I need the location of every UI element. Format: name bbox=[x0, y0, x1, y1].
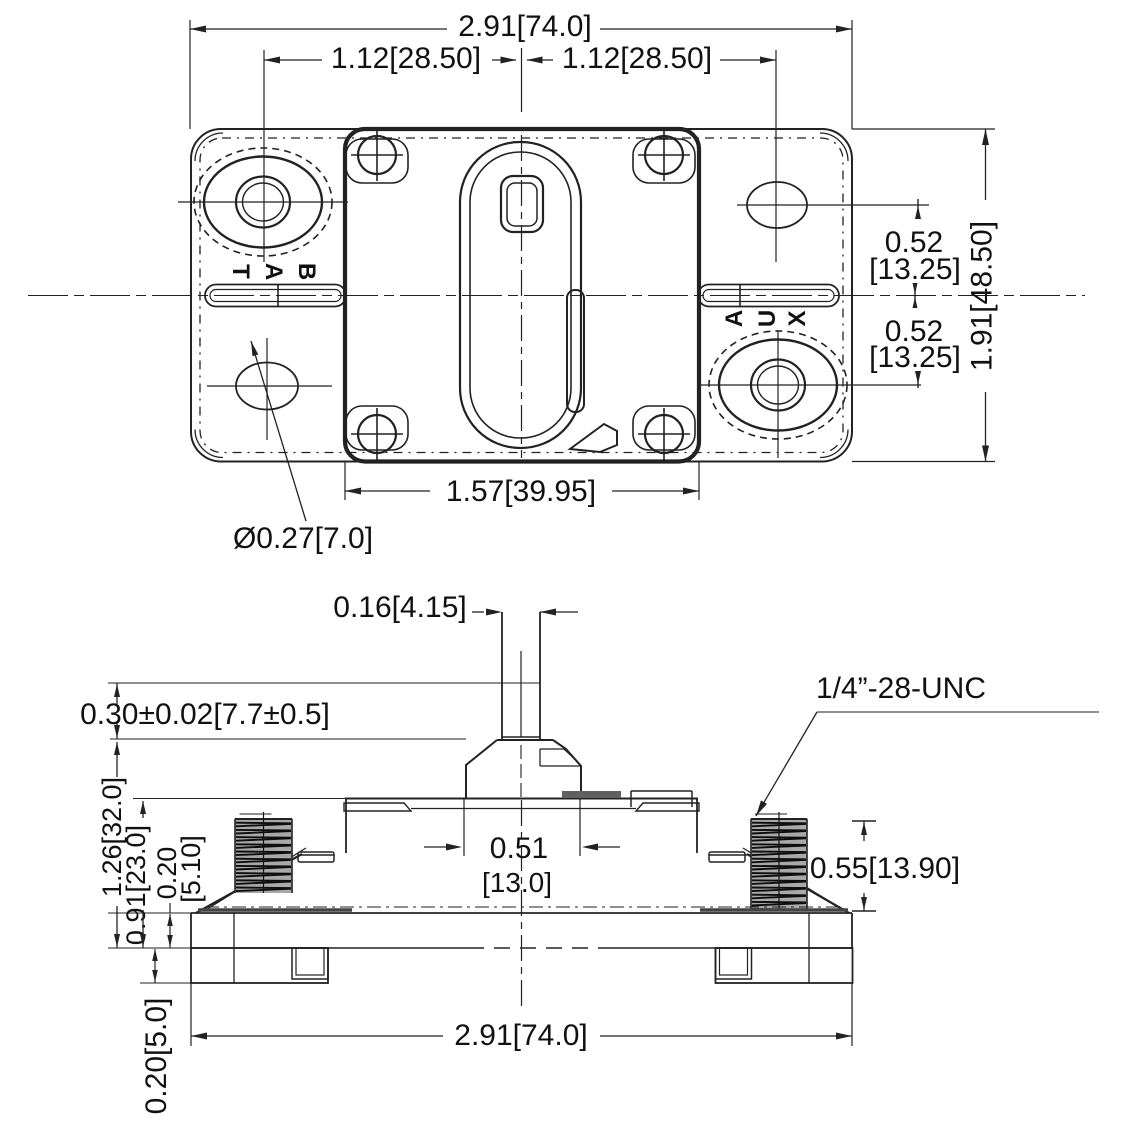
svg-text:A: A bbox=[260, 263, 287, 280]
svg-text:[5.10]: [5.10] bbox=[176, 835, 206, 903]
svg-text:U: U bbox=[754, 310, 781, 327]
svg-text:1/4”-28-UNC: 1/4”-28-UNC bbox=[816, 672, 986, 705]
svg-text:0.30±0.02[7.7±0.5]: 0.30±0.02[7.7±0.5] bbox=[80, 698, 330, 731]
svg-text:A: A bbox=[721, 310, 748, 327]
svg-text:X: X bbox=[784, 310, 811, 326]
svg-text:[13.25]: [13.25] bbox=[869, 341, 961, 374]
svg-text:0.20[5.0]: 0.20[5.0] bbox=[140, 998, 173, 1115]
svg-text:1.91[48.50]: 1.91[48.50] bbox=[966, 221, 999, 371]
svg-text:0.16[4.15]: 0.16[4.15] bbox=[333, 591, 466, 624]
svg-text:2.91[74.0]: 2.91[74.0] bbox=[454, 1019, 587, 1052]
svg-text:[13.25]: [13.25] bbox=[869, 253, 961, 286]
svg-text:B: B bbox=[293, 263, 320, 280]
svg-text:T: T bbox=[227, 264, 254, 279]
svg-text:1.57[39.95]: 1.57[39.95] bbox=[446, 475, 596, 508]
svg-text:Ø0.27[7.0]: Ø0.27[7.0] bbox=[233, 522, 373, 555]
svg-text:[13.0]: [13.0] bbox=[482, 867, 552, 898]
svg-text:0.55[13.90]: 0.55[13.90] bbox=[810, 852, 960, 885]
svg-text:0.51: 0.51 bbox=[490, 832, 548, 865]
svg-text:0.91[23.0]: 0.91[23.0] bbox=[121, 825, 151, 945]
svg-text:1.12[28.50]: 1.12[28.50] bbox=[562, 42, 712, 75]
svg-text:2.91[74.0]: 2.91[74.0] bbox=[458, 10, 591, 43]
svg-text:1.12[28.50]: 1.12[28.50] bbox=[331, 42, 481, 75]
